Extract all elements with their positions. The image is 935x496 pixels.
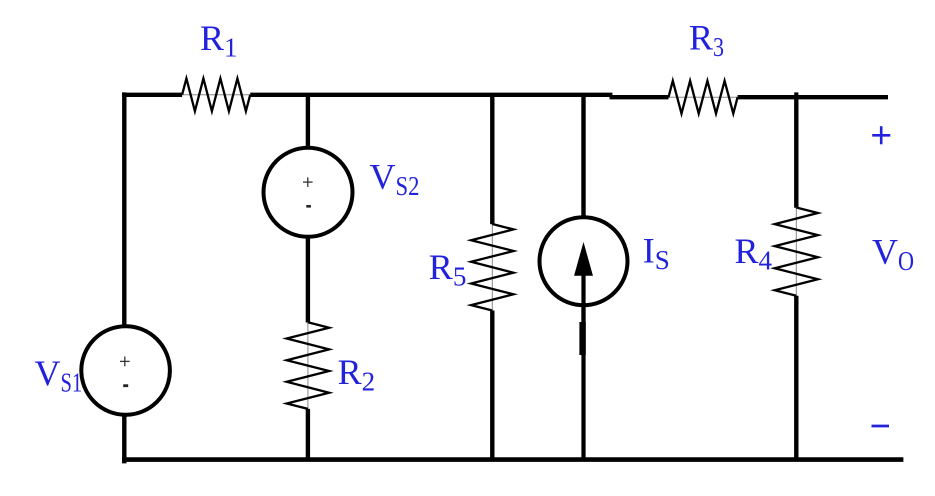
output minus terminal mark [872, 425, 890, 428]
wire R5 branch top [490, 95, 494, 224]
junction node at R4 top [794, 92, 798, 99]
wire IS to bottom rail with heavy arrow-tail segment [579, 305, 586, 460]
wire bottom horizontal (ground rail) [122, 457, 903, 462]
label R3 [689, 18, 724, 63]
wire R4 branch top [794, 97, 798, 208]
svg-text:R3: R3 [689, 18, 724, 63]
resistor R1 [182, 78, 250, 111]
label IS [643, 231, 670, 276]
wire IS branch top [581, 95, 585, 218]
svg-text:R5: R5 [429, 247, 467, 292]
label VS1 [35, 353, 83, 398]
svg-text:VS2: VS2 [370, 156, 420, 201]
label VO [872, 231, 914, 276]
resistor R2 [287, 322, 329, 409]
voltage source VS2 [264, 148, 353, 237]
wire VS2 to R2 [306, 237, 310, 323]
resistor R5 [471, 224, 513, 311]
svg-text:R2: R2 [338, 352, 376, 397]
label VS2 [370, 156, 420, 201]
wire R5 to bottom rail [490, 311, 494, 460]
thin wire through resistor R4 [795, 208, 797, 296]
wire top-left horizontal segment (node between R1 right and R5/IS top) [122, 93, 612, 97]
voltage source VS1 [81, 326, 170, 415]
wire R2 to bottom rail [306, 409, 310, 460]
svg-text:R1: R1 [200, 18, 238, 63]
thin wire through resistor R5 [491, 224, 493, 311]
output plus terminal mark [872, 126, 890, 144]
label R2 [338, 352, 376, 397]
svg-text:VO: VO [872, 231, 914, 276]
resistor R4 [775, 208, 818, 296]
wire VS2 branch top (top wire to VS2) [306, 95, 310, 149]
wire top-right horizontal segment (IS node to R3 to VO+ terminal) [610, 95, 889, 99]
label R5 [429, 247, 467, 292]
wire left vertical (VS1 branch) [122, 92, 126, 463]
thin wire through resistor R2 [307, 322, 309, 409]
thin wire through resistor R3 [669, 96, 738, 98]
label R4 [735, 231, 773, 276]
wire R4 to bottom rail [794, 296, 798, 460]
svg-text:VS1: VS1 [35, 353, 83, 398]
label R1 [200, 18, 238, 63]
svg-text:IS: IS [643, 231, 670, 276]
thin wire through resistor R1 [182, 94, 250, 96]
resistor R3 [669, 81, 738, 114]
current source IS [540, 217, 628, 322]
svg-text:R4: R4 [735, 231, 773, 276]
